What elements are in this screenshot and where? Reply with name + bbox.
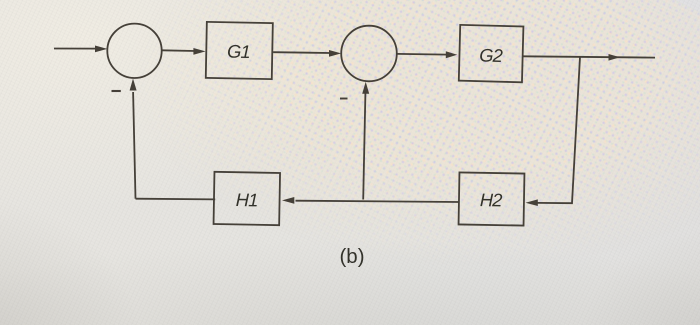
summing junction S2 bbox=[341, 26, 397, 82]
wire input R bbox=[54, 46, 107, 53]
wire S2 to G2 bbox=[397, 51, 457, 58]
block H1 bbox=[214, 172, 281, 225]
wire S1 to G1 bbox=[162, 48, 206, 55]
svg-text:H1: H1 bbox=[236, 189, 258, 210]
block G2 bbox=[459, 25, 524, 82]
wire corner to H1 bbox=[136, 198, 216, 201]
summing junction S1 bbox=[107, 24, 161, 78]
block G1 bbox=[206, 22, 273, 79]
svg-text:G2: G2 bbox=[479, 44, 503, 66]
wire H2 to H1 feedback bbox=[282, 197, 459, 204]
block H2 bbox=[459, 172, 525, 225]
wire branch from output down to H2 bbox=[526, 57, 581, 206]
minus sign at S2 bbox=[340, 98, 348, 100]
wire G1 to S2 bbox=[273, 50, 341, 57]
wire branch up from feedback to S2 bbox=[362, 82, 369, 200]
wire S1 feedback vertical bbox=[130, 79, 137, 199]
svg-text:H2: H2 bbox=[480, 189, 503, 210]
minus sign at S1 bbox=[112, 90, 121, 92]
wire output with arrowhead bbox=[523, 54, 656, 61]
svg-text:(b): (b) bbox=[339, 245, 364, 268]
label (b) bbox=[339, 245, 364, 268]
svg-text:G1: G1 bbox=[227, 41, 250, 62]
